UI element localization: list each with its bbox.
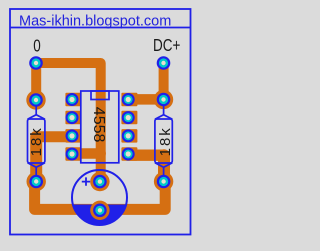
svg-text:0: 0 [33,37,41,56]
svg-text:18k: 18k [157,126,174,156]
svg-text:18k: 18k [28,126,45,156]
svg-text:Mas-ikhin.blogspot.com: Mas-ikhin.blogspot.com [19,13,171,29]
svg-text:4558: 4558 [90,107,107,143]
svg-text:DC+: DC+ [153,36,180,55]
